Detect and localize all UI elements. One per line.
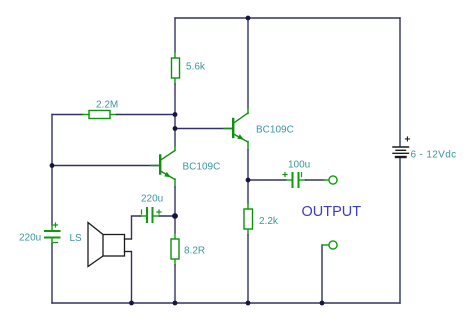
svg-text:BC109C: BC109C — [256, 125, 294, 136]
svg-text:8.2R: 8.2R — [184, 246, 205, 257]
wire 8.2R bottom — [174, 259, 176, 265]
node dot output return — [320, 301, 325, 306]
wire Q2 collector — [247, 18, 249, 108]
wire left rail lower — [51, 238, 53, 244]
capacitor 220u horizontal — [142, 208, 162, 222]
battery B1 — [393, 147, 409, 157]
wire bottom rail — [52, 302, 400, 304]
svg-text:BC109C: BC109C — [183, 162, 221, 173]
wire 100u to terminal — [300, 179, 306, 181]
node dot 2.2k bottom — [246, 301, 251, 306]
resistor 8.2R — [171, 239, 179, 259]
wire Q1 emitter to node — [174, 179, 176, 187]
svg-text:2.2M: 2.2M — [96, 100, 118, 111]
transistor Q1 BC109C — [151, 146, 175, 180]
node dot Q2 base junction — [173, 126, 178, 131]
wire node to 8.2R — [174, 216, 176, 233]
svg-text:+: + — [405, 135, 411, 146]
wire top rail — [175, 17, 400, 19]
node dot Q2 collector top rail — [246, 16, 251, 21]
node dot 2.2M-5.6k junction — [173, 112, 178, 117]
node dot speaker bottom — [129, 301, 134, 306]
resistor 5.6k — [172, 58, 180, 78]
output terminal upper — [329, 176, 337, 184]
wire 2.2k bottom — [247, 229, 249, 235]
transistor Q2 BC109C — [224, 113, 248, 142]
wire right rail lower — [399, 158, 401, 304]
wire Q2 emitter to node — [247, 142, 249, 151]
node dot Q1 emitter junction — [172, 213, 178, 219]
wire 100u branch — [248, 179, 286, 181]
resistor 2.2k — [244, 209, 253, 229]
capacitor 100u — [283, 173, 302, 188]
wire 220u cap left — [141, 215, 148, 217]
speaker LS — [88, 223, 131, 267]
svg-text:6 - 12Vdc: 6 - 12Vdc — [411, 150, 457, 161]
svg-text:220u: 220u — [141, 194, 163, 205]
node dot 8.2R bottom — [173, 301, 178, 306]
svg-text:220u: 220u — [19, 233, 41, 244]
wire 5.6k top lead — [174, 18, 176, 52]
svg-text:5.6k: 5.6k — [186, 62, 206, 73]
wire Q1 base — [52, 165, 159, 167]
wire left rail upper — [51, 115, 53, 226]
wire 220u cap right — [153, 215, 160, 217]
wire 2.2M right — [110, 114, 117, 116]
svg-text:100u: 100u — [288, 160, 310, 171]
svg-text:2.2k: 2.2k — [259, 216, 279, 227]
wire 2.2M left — [52, 114, 83, 116]
wire right rail upper — [399, 18, 401, 147]
wire speaker bottom — [131, 252, 133, 304]
node dot Q1 base junction — [50, 163, 55, 168]
capacitor 220u left — [45, 223, 60, 243]
wire 5.6k bottom to node — [174, 78, 176, 84]
resistor 2.2M — [89, 111, 110, 119]
svg-text:OUTPUT: OUTPUT — [302, 204, 362, 220]
output terminal lower — [322, 241, 337, 249]
wire Q2 base — [175, 128, 232, 130]
wire output return — [321, 245, 323, 303]
svg-text:LS: LS — [70, 233, 83, 244]
node dot 100u branch — [246, 178, 251, 183]
